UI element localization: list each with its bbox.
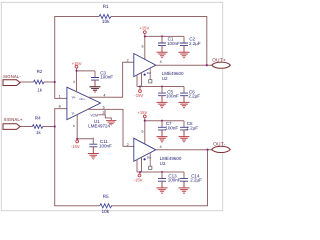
junction OUT+ (206, 64, 208, 66)
+15V supply U3 (143, 115, 146, 118)
wire OUT- (156, 149, 212, 151)
wire V- rail U1 (77, 115, 93, 141)
svg-text:R2: R2 (37, 69, 43, 74)
svg-text:R1: R1 (103, 4, 109, 9)
svg-text:4: 4 (160, 60, 162, 64)
svg-text:BW: BW (147, 72, 152, 75)
+15V supply U2 (143, 31, 146, 34)
svg-text:5: 5 (142, 129, 144, 133)
svg-text:OUT+: OUT+ (212, 58, 226, 63)
wire V+ rail U3 (145, 118, 184, 144)
svg-text:100nF: 100nF (100, 75, 113, 80)
terminal SIGNAL+ (3, 124, 20, 130)
wire V- rail U3 (137, 172, 184, 174)
svg-text:+15V: +15V (139, 25, 149, 30)
capacitor C6 (179, 87, 190, 109)
junction node IN- (54, 81, 56, 83)
svg-text:2: 2 (127, 143, 129, 147)
svg-text:SIGNAL-: SIGNAL- (3, 74, 21, 79)
svg-text:6: 6 (73, 124, 75, 128)
svg-text:LME49724: LME49724 (88, 124, 110, 129)
svg-text:100nF: 100nF (167, 41, 180, 46)
capacitor C13 (157, 172, 168, 194)
wire SIGNAL+ to R4 (20, 126, 32, 128)
svg-text:U3: U3 (160, 161, 166, 166)
svg-text:3: 3 (73, 80, 75, 84)
node BW/V- dot (144, 74, 146, 76)
capacitor C3 (90, 71, 101, 93)
junction (75, 70, 77, 72)
terminal OUT+ (212, 62, 231, 68)
wire U1 OUT- (pin5) to U3 input (87, 109, 134, 146)
svg-text:100nF: 100nF (99, 144, 112, 149)
BW square pad (149, 68, 151, 79)
wire V+ rail U1 (77, 68, 96, 92)
junction node IN+ (54, 125, 56, 127)
svg-text:U2: U2 (162, 76, 168, 81)
wire R1 right + feedback down to OUT+ (111, 17, 207, 66)
svg-text:+15V: +15V (137, 110, 147, 115)
junction OUT- (206, 148, 208, 150)
svg-text:10k: 10k (102, 209, 110, 214)
BW square pad (149, 153, 151, 166)
-15V supply U3 (138, 174, 141, 177)
+15V supply U1 (75, 65, 78, 68)
svg-text:2.2μF: 2.2μF (188, 94, 200, 99)
svg-text:100nF: 100nF (165, 126, 178, 131)
node BW/V- dot (144, 158, 146, 160)
svg-text:R4: R4 (35, 115, 41, 120)
svg-text:2: 2 (102, 111, 104, 115)
svg-text:SIGNAL+: SIGNAL+ (4, 117, 23, 122)
svg-text:BW: BW (147, 157, 152, 160)
svg-text:-15V: -15V (71, 144, 80, 149)
svg-text:10k: 10k (102, 19, 110, 24)
wire R4 to node (43, 126, 55, 128)
page border (1, 2, 222, 210)
svg-text:8: 8 (59, 105, 61, 109)
svg-text:1: 1 (59, 95, 61, 99)
-15V supply U1 (76, 140, 79, 143)
buffer U3 LME49600 (134, 138, 156, 161)
svg-text:5: 5 (142, 45, 144, 49)
wires V-/BW pins U3 (137, 157, 142, 172)
svg-text:1k: 1k (37, 87, 43, 92)
svg-text:4: 4 (160, 145, 162, 149)
svg-text:V-: V- (72, 111, 75, 115)
wire SIGNAL- to R2 (20, 81, 33, 83)
op-amp U1 LME49724 (67, 87, 101, 119)
resistor R5 (100, 204, 112, 208)
wire V- rail U2 (137, 87, 184, 90)
svg-text:OD+: OD+ (79, 98, 85, 101)
ground (VCM) (106, 121, 116, 124)
junction (76, 138, 78, 140)
svg-text:OUT-: OUT- (213, 141, 226, 146)
capacitor C2 (179, 36, 190, 58)
wire R5 right + up to OUT- (111, 150, 208, 206)
terminal SIGNAL- (3, 80, 20, 86)
capacitor C8 (179, 121, 190, 143)
resistor R4 (32, 125, 43, 129)
wire U1 OUT+ (pin4) to U2 input (88, 62, 133, 97)
svg-text:VCM: VCM (90, 113, 98, 117)
resistor R1 (99, 14, 111, 18)
wire pin1 stub (55, 97, 67, 99)
capacitor C1 (157, 36, 168, 58)
capacitor C14 (179, 172, 190, 194)
svg-text:-15V: -15V (134, 93, 143, 98)
svg-text:1k: 1k (36, 130, 42, 135)
capacitor C5 (157, 87, 168, 109)
svg-text:100nF: 100nF (168, 178, 181, 183)
svg-text:2: 2 (127, 59, 129, 63)
capacitor C11 (88, 138, 99, 160)
terminal OUT- (212, 146, 231, 152)
wire V+ rail U2 (145, 34, 184, 60)
-15V supply U2 (139, 90, 142, 93)
wire R1 left + left vertical (IN- net) (55, 17, 99, 99)
svg-text:-15V: -15V (134, 178, 143, 183)
svg-text:R5: R5 (103, 194, 109, 199)
capacitor C7 (157, 121, 168, 143)
svg-text:2.2μF: 2.2μF (186, 126, 198, 131)
svg-text:+15V: +15V (72, 61, 82, 66)
wire OUT+ (156, 64, 212, 66)
wire pin8 stub + left vertical down + R5 left (IN+ net) (55, 109, 100, 206)
wires V-/BW pins U2 (137, 73, 142, 87)
buffer U2 LME49600 (134, 54, 156, 77)
VCM pin and wire to ground (98, 110, 111, 120)
svg-text:2.2μF: 2.2μF (190, 178, 202, 183)
svg-text:100nF: 100nF (166, 94, 179, 99)
resistor R2 (34, 80, 45, 84)
svg-text:2.2μF: 2.2μF (189, 41, 201, 46)
svg-text:V+: V+ (72, 95, 76, 99)
wire R2 to node (44, 81, 55, 83)
